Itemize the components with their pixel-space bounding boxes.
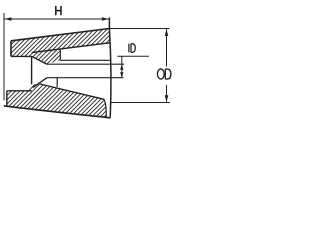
OD dimension line upper xyxy=(166,29,168,67)
OD top extension line xyxy=(109,28,170,30)
big end ellipse left arc xyxy=(104,99,106,117)
bore top line xyxy=(47,63,124,65)
counterbore top line xyxy=(11,55,32,57)
counterbore bottom line xyxy=(7,90,32,92)
top chamfer line xyxy=(32,56,47,64)
ID underline xyxy=(117,55,149,57)
inner surface step vertical xyxy=(59,49,61,60)
funnel mouth vertical xyxy=(31,56,33,84)
bottom chamfer line xyxy=(33,78,47,88)
OD bottom extension line xyxy=(110,102,170,104)
OD label xyxy=(157,69,164,79)
OD arrow up xyxy=(165,29,169,36)
H dimension line xyxy=(4,18,109,20)
ID label xyxy=(128,44,130,53)
cone left face xyxy=(10,41,12,57)
ID arrow up xyxy=(120,65,123,70)
H arrow left xyxy=(5,17,12,21)
H arrow right xyxy=(102,17,109,21)
cone outer top edge xyxy=(11,29,109,41)
ID dimension line xyxy=(121,56,123,77)
ID arrow down xyxy=(120,72,123,77)
inner surface line xyxy=(60,59,110,61)
cone bottom silhouette xyxy=(4,106,111,118)
bore bottom line xyxy=(47,77,124,79)
OD arrow down xyxy=(165,95,169,102)
lower step vertical xyxy=(56,78,58,87)
big end right face edge xyxy=(109,18,111,118)
OD dimension line lower xyxy=(166,85,168,103)
lower wall inner edge xyxy=(40,84,104,99)
cone upper wall section (hatched) xyxy=(11,29,110,65)
cone bottom-left face xyxy=(6,91,8,107)
upper wall inner edge xyxy=(32,43,110,53)
cone lower wall section (hatched) xyxy=(7,84,107,117)
H extension line left xyxy=(3,13,5,101)
H label xyxy=(56,6,61,15)
